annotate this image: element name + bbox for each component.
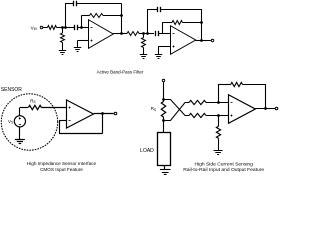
svg-text:Rail-to-Rail Input and Output: Rail-to-Rail Input and Output Feature	[183, 167, 264, 173]
svg-text:Active Band-Pass Filter: Active Band-Pass Filter	[97, 70, 144, 75]
svg-text:LOAD: LOAD	[140, 148, 154, 154]
svg-text:High Side Current Sensing: High Side Current Sensing	[194, 162, 253, 168]
svg-text:RS: RS	[151, 106, 156, 112]
svg-text:VIN: VIN	[31, 26, 38, 32]
svg-text:High Impedance Sensor Interfac: High Impedance Sensor Interface	[27, 161, 97, 166]
svg-text:RS: RS	[30, 98, 35, 104]
svg-text:VS: VS	[8, 119, 13, 125]
svg-text:CMOS Input Feature: CMOS Input Feature	[40, 167, 83, 172]
svg-text:SENSOR: SENSOR	[1, 87, 23, 93]
